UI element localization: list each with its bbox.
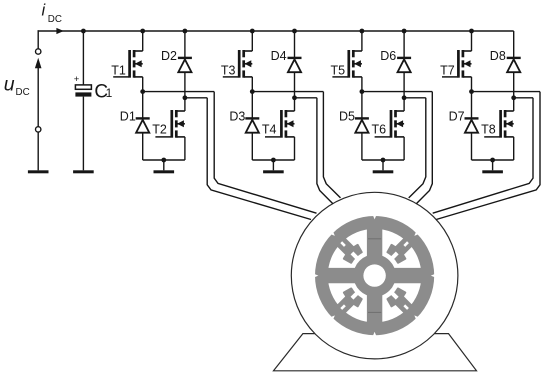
svg-text:T2: T2 xyxy=(152,122,167,136)
junction dot node B leg 2 xyxy=(292,95,297,100)
wire: node B down to drain of T4 xyxy=(294,98,296,111)
current arrow i_DC on rail xyxy=(56,28,63,34)
svg-text:T4: T4 xyxy=(262,122,277,136)
junction dot node B leg 1 xyxy=(183,95,188,100)
wire: C1 bottom lead xyxy=(82,97,84,171)
label C1 xyxy=(94,82,112,103)
wire: source of T8 to bottom rail xyxy=(513,137,515,160)
junction dot ground node leg 4 xyxy=(490,158,495,163)
junction dot rail/T3 xyxy=(250,29,255,34)
wire: lower terminal to ground xyxy=(37,132,39,170)
wire: ground stub leg 2 xyxy=(272,160,274,170)
junction dot node B leg 3 xyxy=(402,95,407,100)
ground (leg 3) xyxy=(373,170,394,173)
wire: top DC rail xyxy=(38,30,514,32)
svg-text:T3: T3 xyxy=(221,64,236,78)
ground (source branch) xyxy=(28,170,49,173)
transistor T6 (MOSFET) xyxy=(375,110,405,138)
wire: phase 3 terminal A to motor xyxy=(416,92,432,204)
svg-text:T7: T7 xyxy=(440,64,455,78)
wire: anode of D6 down to node B xyxy=(403,72,405,98)
wire: anode of D4 down to node B xyxy=(294,72,296,98)
transistor T5 (MOSFET) xyxy=(332,50,362,78)
wire: node A down to cathode of D1 xyxy=(142,92,144,119)
label u_DC xyxy=(4,73,30,98)
junction dot ground node leg 1 xyxy=(161,158,166,163)
diode D5 xyxy=(355,118,369,132)
junction dot node A leg 4 xyxy=(469,89,474,94)
node A wire (phase 4 upper terminal) xyxy=(472,91,541,93)
junction dot node B leg 4 xyxy=(511,95,516,100)
junction dot node A leg 1 xyxy=(140,89,145,94)
bottom wire leg 4 xyxy=(472,159,514,161)
wire: source of T6 to bottom rail xyxy=(403,137,405,160)
wire: source of T5 to node A xyxy=(361,77,363,92)
node B wire (phase 1 lower terminal) xyxy=(185,97,207,99)
node A wire (phase 3 upper terminal) xyxy=(362,91,432,93)
junction dot ground node leg 3 xyxy=(381,158,386,163)
wire: phase 1 terminal B to motor xyxy=(207,98,311,220)
transistor T3 (MOSFET) xyxy=(223,50,253,78)
wire: source of T4 to bottom rail xyxy=(294,137,296,160)
transistor T2 (MOSFET) xyxy=(155,110,185,138)
motor housing (outer circle) xyxy=(291,192,458,359)
wire: node B down to drain of T6 xyxy=(403,98,405,111)
diode D7 xyxy=(465,118,479,132)
svg-text:T1: T1 xyxy=(111,64,126,78)
svg-text:D1: D1 xyxy=(120,109,136,123)
wire: drain of T7 to rail xyxy=(471,31,473,51)
node: upper source terminal (open circle) xyxy=(36,49,41,54)
svg-text:T5: T5 xyxy=(331,64,346,78)
svg-text:T6: T6 xyxy=(372,122,387,136)
node B wire (phase 3 lower terminal) xyxy=(404,97,426,99)
diode D3 xyxy=(245,118,259,132)
ground (C1 branch) xyxy=(73,170,94,173)
junction dot at C1 / rail xyxy=(81,29,86,34)
junction dot rail/T5 xyxy=(360,29,365,34)
wire: ground stub leg 4 xyxy=(492,160,494,170)
motor mounting base xyxy=(274,334,477,371)
bottom wire leg 1 xyxy=(143,159,185,161)
node A wire (phase 2 upper terminal) xyxy=(252,91,323,93)
wire: phase 4 terminal A to motor xyxy=(436,92,540,220)
wire: node A down to cathode of D3 xyxy=(251,92,253,119)
motor stator and rotor laminations (gray) xyxy=(315,216,434,335)
wire: phase 2 terminal A to motor xyxy=(323,92,340,198)
wire: top-left corner of DC rail down to source terminal xyxy=(37,30,39,48)
svg-text:D8: D8 xyxy=(490,49,506,63)
bottom wire leg 2 xyxy=(252,159,294,161)
wire: phase 1 terminal A to motor xyxy=(214,92,316,214)
svg-text:i: i xyxy=(42,2,47,20)
bottom wire leg 3 xyxy=(362,159,404,161)
svg-text:D2: D2 xyxy=(161,49,177,63)
ground (leg 4) xyxy=(482,170,503,173)
transistor T8 (MOSFET) xyxy=(484,110,514,138)
wire: drain of T1 to rail xyxy=(142,31,144,51)
node A wire (phase 1 upper terminal) xyxy=(143,91,215,93)
transistor T4 (MOSFET) xyxy=(265,110,295,138)
svg-text:DC: DC xyxy=(48,14,62,25)
transistor T7 (MOSFET) xyxy=(442,50,472,78)
wire: drain of T5 to rail xyxy=(361,31,363,51)
wire: node B down to drain of T8 xyxy=(513,98,515,111)
wire: node A down to cathode of D5 xyxy=(361,92,363,119)
svg-text:D5: D5 xyxy=(339,109,355,123)
wire: anode of D1 to bottom rail xyxy=(142,133,144,160)
svg-text:+: + xyxy=(74,74,80,85)
ground (leg 1) xyxy=(154,170,175,173)
node: lower source terminal (open circle) xyxy=(36,127,41,132)
svg-text:D7: D7 xyxy=(449,109,465,123)
diode D2 xyxy=(178,58,192,72)
motor shaft hole and lamination notches (white) xyxy=(314,215,436,337)
junction dot node A leg 3 xyxy=(360,89,365,94)
air gap line (bottom rotor/stator poles) xyxy=(368,311,381,313)
wire: source of T2 to bottom rail xyxy=(184,137,186,160)
label i_DC xyxy=(42,2,62,25)
wire: cathode of D6 to rail xyxy=(403,31,405,58)
node B wire (phase 4 lower terminal) xyxy=(514,97,533,99)
wire: cathode of D2 to rail xyxy=(184,31,186,58)
svg-text:u: u xyxy=(4,73,15,95)
wire: cathode of D8 to rail xyxy=(513,31,515,58)
wire: node B down to drain of T2 xyxy=(184,98,186,111)
capacitor C1 plates xyxy=(75,85,91,97)
svg-text:D6: D6 xyxy=(380,49,396,63)
transistor T1 (MOSFET) xyxy=(113,50,143,78)
wire: anode of D7 to bottom rail xyxy=(471,133,473,160)
air gap line (top rotor/stator poles) xyxy=(368,238,381,240)
junction dot ground node leg 2 xyxy=(271,158,276,163)
wire: anode of D8 down to node B xyxy=(513,72,515,98)
svg-text:T8: T8 xyxy=(481,122,496,136)
diode D4 xyxy=(288,58,302,72)
voltage arrow u_DC (pointing up) xyxy=(35,58,42,127)
svg-text:D3: D3 xyxy=(229,109,245,123)
wire: phase 4 terminal B to motor xyxy=(433,98,533,213)
node B wire (phase 2 lower terminal) xyxy=(295,97,317,99)
ground (leg 2) xyxy=(263,170,284,173)
wire: phase 2 terminal B to motor xyxy=(317,98,333,204)
wire: cathode of D4 to rail xyxy=(294,31,296,58)
diode D1 xyxy=(136,118,150,132)
diode D8 xyxy=(507,58,521,72)
diode D6 xyxy=(397,58,411,72)
junction dot node A leg 2 xyxy=(250,89,255,94)
wire: phase 3 terminal B to motor xyxy=(409,98,426,198)
wire: C1 top lead xyxy=(82,31,84,85)
wire: ground stub leg 1 xyxy=(163,160,165,170)
wire: source of T3 to node A xyxy=(251,77,253,92)
wire: source of T1 to node A xyxy=(142,77,144,92)
svg-text:D4: D4 xyxy=(271,49,287,63)
junction dot rail/T7 xyxy=(469,29,474,34)
junction dot rail/D2 xyxy=(183,29,188,34)
junction dot rail/D6 xyxy=(402,29,407,34)
wire: ground stub leg 3 xyxy=(382,160,384,170)
svg-text:DC: DC xyxy=(16,87,30,98)
wire: anode of D2 down to node B xyxy=(184,72,186,98)
junction dot rail/T1 xyxy=(140,29,145,34)
wire: node A down to cathode of D7 xyxy=(471,92,473,119)
wire: drain of T3 to rail xyxy=(251,31,253,51)
svg-text:1: 1 xyxy=(106,86,113,100)
wire: anode of D5 to bottom rail xyxy=(361,133,363,160)
wire: source of T7 to node A xyxy=(471,77,473,92)
wire: anode of D3 to bottom rail xyxy=(251,133,253,160)
junction dot rail/D4 xyxy=(292,29,297,34)
